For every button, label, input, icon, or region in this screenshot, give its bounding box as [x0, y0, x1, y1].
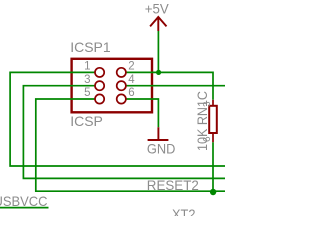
pin 5 circle — [95, 94, 104, 103]
junction +5V/pin2 — [156, 70, 161, 75]
resistor RN1C top stub — [212, 100, 214, 106]
wire net RESET2 (pin5 to right edge) — [36, 99, 225, 191]
svg-text:3: 3 — [202, 101, 213, 107]
svg-text:6: 6 — [202, 136, 213, 142]
svg-text:6: 6 — [128, 87, 134, 99]
wire resistor bottom to RESET2 — [212, 142, 214, 191]
resistor RN1C body — [209, 106, 217, 133]
svg-text:+5V: +5V — [145, 0, 170, 16]
svg-text:5: 5 — [84, 87, 90, 99]
wire net USBVCC stub — [0, 207, 49, 209]
pin 4 circle — [117, 81, 126, 90]
svg-text:GND: GND — [147, 141, 176, 157]
wire net MISO (pin1 to right edge) — [10, 72, 225, 166]
wire net +5V (pin2 to resistor) — [121, 72, 213, 99]
wire net GND (pin6 to gnd symbol) — [121, 99, 158, 127]
ground symbol GND — [148, 127, 169, 140]
svg-text:3: 3 — [84, 74, 90, 86]
svg-text:ICSP: ICSP — [70, 113, 103, 129]
pin 1 circle — [95, 68, 104, 77]
resistor RN1C bottom stub — [212, 133, 214, 142]
svg-text:4: 4 — [128, 74, 135, 86]
svg-text:2: 2 — [128, 61, 134, 73]
wire +5V symbol drop — [157, 31, 159, 72]
svg-text:ICSP1: ICSP1 — [70, 39, 111, 55]
pin 6 circle — [117, 94, 126, 103]
pin 2 circle — [117, 68, 126, 77]
junction RESET2/resistor — [210, 189, 216, 195]
connector ICSP1 body — [72, 59, 152, 113]
svg-text:RESET2: RESET2 — [147, 177, 199, 193]
power symbol +5V arrow — [150, 17, 166, 31]
svg-text:XT2: XT2 — [172, 206, 196, 216]
svg-text:USBVCC: USBVCC — [0, 193, 48, 209]
pin 3 circle — [95, 81, 104, 90]
wire net MOSI (pin4 to right edge) — [121, 85, 225, 87]
svg-text:1: 1 — [84, 61, 90, 73]
wire net SCK (pin3 to right edge) — [23, 86, 225, 179]
